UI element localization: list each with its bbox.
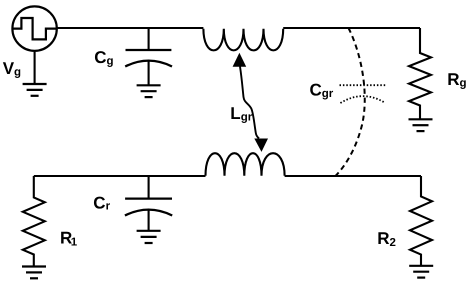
capacitor Cg curved plate	[125, 61, 172, 67]
wire bottom right	[285, 175, 421, 177]
svg-text:R1: R1	[60, 229, 78, 249]
mutual coupling arrow bottom head	[254, 139, 268, 152]
svg-text:Cr: Cr	[93, 194, 110, 213]
ground (source Vg)	[23, 84, 47, 96]
inductor L top (4 loops below wire)	[203, 29, 283, 51]
svg-text:Rg: Rg	[447, 70, 466, 90]
capacitor Cr curved plate	[125, 210, 172, 216]
capacitor Cr straight plate	[125, 197, 172, 199]
wire bottom left	[34, 175, 206, 177]
svg-text:Cgr: Cgr	[310, 81, 334, 101]
ground (R1)	[22, 267, 46, 279]
capacitor Cg straight plate	[126, 49, 172, 51]
capacitor Cgr dotted straight plate	[340, 84, 387, 86]
capacitor Cg stem top	[148, 28, 150, 50]
capacitor Cr stem top	[148, 176, 150, 199]
ground (R2)	[409, 266, 433, 278]
resistor Rg	[409, 28, 431, 119]
svg-text:Cg: Cg	[94, 48, 113, 68]
ground (Rg)	[409, 119, 433, 131]
capacitor Cr stem bottom	[148, 210, 150, 231]
svg-text:R2: R2	[377, 229, 396, 249]
resistor R2	[410, 176, 432, 266]
wire source bottom lead	[34, 51, 36, 84]
dashed coupling boundary arc	[336, 28, 365, 176]
capacitor Cg stem bottom	[148, 61, 150, 85]
resistor R1	[23, 176, 45, 267]
svg-text:Vg: Vg	[3, 59, 21, 79]
inductor L bottom (4 loops above wire)	[206, 153, 285, 176]
ground (Cg)	[137, 85, 161, 97]
wire top: inductor to Rg	[283, 27, 420, 29]
ground (Cr)	[137, 231, 161, 243]
mutual coupling arrow curve	[240, 67, 259, 139]
capacitor Cgr dotted curved plate	[340, 96, 385, 103]
square wave symbol inside source	[12, 18, 56, 39]
mutual coupling arrow top head	[233, 53, 247, 67]
source V1 pulse generator circle	[12, 6, 56, 50]
wire top: source to inductor	[57, 27, 204, 29]
